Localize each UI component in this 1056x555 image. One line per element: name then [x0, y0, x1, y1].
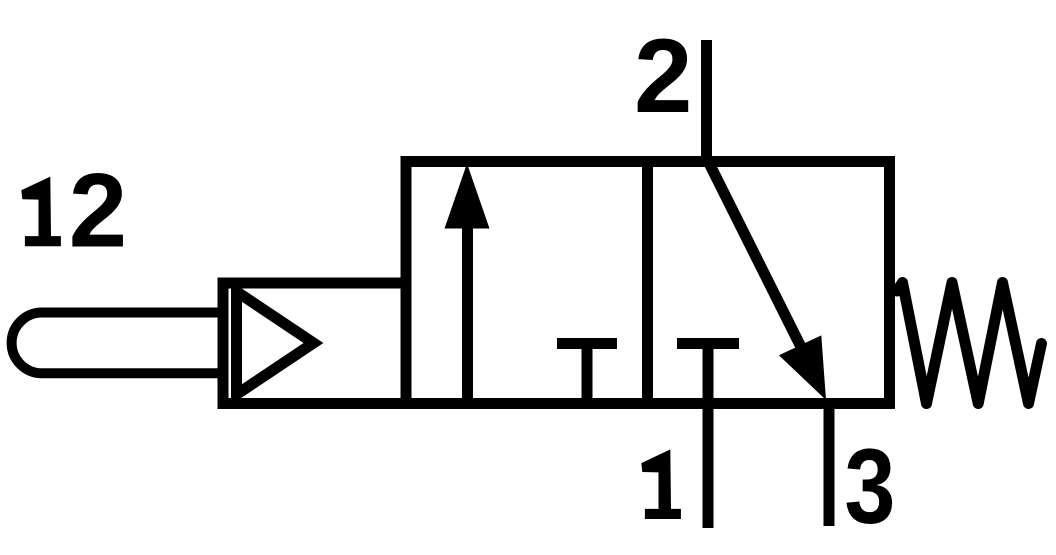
svg-text:2: 2 [69, 153, 127, 270]
svg-text:3: 3 [844, 426, 895, 546]
svg-text:2: 2 [634, 18, 692, 135]
